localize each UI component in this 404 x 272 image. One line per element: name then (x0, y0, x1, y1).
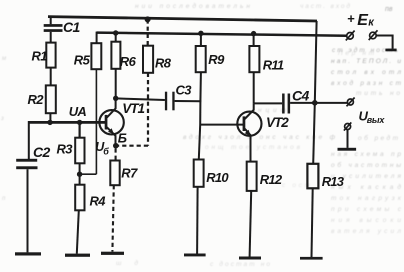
ground bar under R7 (101, 252, 124, 255)
svg-text:ш д: ш д (116, 259, 138, 267)
resistor R11 (249, 46, 283, 72)
svg-text:онщ тое установ: онщ тое установ (205, 144, 301, 151)
svg-text:нап. ТЕПОЛ. и: нап. ТЕПОЛ. и (331, 58, 401, 65)
wire R4 to ground (77, 210, 79, 253)
wire R10 to ground (196, 187, 199, 254)
svg-text:R10: R10 (206, 170, 229, 185)
wire R2 to UA node (49, 113, 51, 122)
wire VT2 base (200, 124, 243, 126)
terminal output upper (347, 98, 355, 107)
wire UA to R3 (78, 122, 80, 137)
wire rail to R11 (253, 34, 255, 46)
node junction R2/UA (47, 120, 52, 125)
svg-text:R6: R6 (120, 54, 137, 69)
svg-text:ния высоки: ния высоки (331, 217, 401, 224)
resistor R9 (196, 46, 225, 72)
svg-text:R12: R12 (260, 172, 283, 187)
capacitor C3 (165, 83, 192, 111)
node junction rail/R6 (113, 30, 118, 35)
wire supply rail (97, 33, 347, 36)
wire UA to C2 (28, 121, 30, 159)
svg-text:пв: пв (385, 6, 393, 13)
wire R5 bottom column (95, 69, 97, 174)
node B junction (113, 143, 119, 149)
resistor R4 (75, 185, 106, 211)
node junction output/riser (312, 100, 318, 106)
wire rail to R9 (200, 33, 202, 46)
capacitor C4 (282, 88, 309, 114)
wire rail corner to R5 (96, 32, 98, 44)
svg-text:R3: R3 (57, 142, 74, 157)
node junction top rail/R8 (145, 16, 151, 22)
svg-text:R1: R1 (32, 49, 48, 64)
capacitor C2 (16, 144, 50, 169)
terminal Ek supply (346, 31, 355, 41)
node VT1 collector junction (113, 96, 118, 101)
resistor R8 (143, 46, 172, 73)
wire UA horizontal (29, 121, 105, 124)
node junction rail/R11 (251, 31, 256, 36)
wire output riser (313, 21, 316, 164)
resistor R10 (194, 160, 230, 187)
label +Ek (347, 11, 375, 29)
svg-text:з: з (0, 116, 4, 122)
svg-text:UA: UA (69, 104, 87, 119)
ground bar under R12 (239, 257, 261, 260)
wire R13 to ground (312, 188, 313, 257)
svg-text:R9: R9 (208, 52, 225, 67)
resistor R5 (74, 43, 102, 69)
wire C4 to output terminal (290, 102, 347, 104)
resistor R7 (110, 161, 138, 186)
wire collector node to C4 (254, 102, 282, 104)
wire collector node to C3 (116, 98, 165, 100)
resistor R12 (247, 162, 283, 191)
resistor R6 (111, 42, 136, 69)
transistor VT1 (99, 98, 144, 145)
node Ub label (95, 140, 109, 157)
svg-text:+: + (347, 11, 355, 26)
svg-text:C4: C4 (292, 88, 310, 104)
resistor R2 (28, 85, 56, 113)
wire R3 to R4 (79, 163, 81, 184)
wire dashed R7 to ground (112, 185, 113, 252)
svg-text:R2: R2 (28, 92, 45, 107)
svg-text:б: б (103, 147, 109, 157)
ground bar under R13 (300, 257, 323, 260)
ground bar under R4 (65, 254, 90, 257)
node junction R3/R4/R5 (77, 172, 82, 177)
wire dashed top rail to R8 (147, 19, 149, 45)
svg-text:C1: C1 (63, 19, 81, 35)
ground bar under C2 (15, 252, 41, 255)
svg-text:VT1: VT1 (122, 101, 144, 116)
wire dashed R8 to emitter level (147, 73, 149, 146)
terminal output lower (344, 122, 351, 130)
ground bar under output (338, 148, 357, 151)
svg-text:R7: R7 (121, 165, 138, 180)
svg-text:C2: C2 (33, 144, 51, 160)
capacitor C1 (44, 18, 81, 43)
svg-text:вых: вых (367, 115, 386, 125)
svg-text:стол вх отл: стол вх отл (331, 69, 401, 76)
svg-text:R4: R4 (90, 193, 107, 208)
svg-text:C3: C3 (176, 83, 193, 98)
wire R6 to VT1 collector (115, 69, 117, 99)
resistor R1 (32, 43, 56, 68)
svg-text:R8: R8 (155, 55, 172, 70)
svg-text:R5: R5 (74, 53, 91, 68)
wire output lower terminal to ground (347, 130, 349, 148)
wire Ek external to ground (376, 36, 392, 49)
svg-text:R11: R11 (263, 57, 284, 72)
wire dashed B to R7 (115, 148, 117, 160)
wire R1 to R2 (50, 68, 52, 86)
svg-text:с достат но: с достат но (210, 260, 270, 268)
wire R11 to VT2 collector (253, 72, 255, 103)
wire dashed to node B (117, 145, 148, 147)
svg-text:VT2: VT2 (266, 115, 289, 130)
wire top feedback rail (48, 17, 317, 21)
resistor R3 (57, 138, 85, 164)
svg-text:R13: R13 (322, 174, 345, 189)
wire junction to R5 column (80, 173, 97, 175)
svg-text:м: м (2, 56, 6, 62)
node junction rail/R9 (198, 31, 203, 36)
wire rail to R6 (115, 33, 117, 42)
wire C3 to VT2 base column (175, 100, 202, 102)
node junction R3/UA (77, 120, 82, 125)
terminal Ek external (369, 30, 378, 40)
resistor R13 (307, 164, 344, 189)
transistor VT2 (237, 103, 289, 161)
wire R12 to ground (250, 191, 252, 257)
ground bar under R10 (184, 254, 206, 257)
label Uvyh (359, 109, 386, 126)
ground bar top right (385, 49, 396, 52)
wire C2 to ground (27, 169, 29, 252)
svg-text:ток нагрузк: ток нагрузк (331, 195, 402, 202)
wire R9 column down to R10 (199, 72, 201, 159)
